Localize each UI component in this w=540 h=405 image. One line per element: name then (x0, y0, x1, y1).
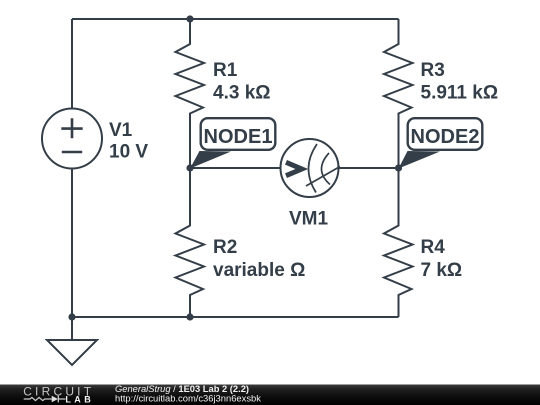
junction dot top node (186, 15, 193, 22)
svg-text:R3: R3 (421, 60, 445, 81)
resistor R2 (176, 168, 205, 317)
wire left branch lower (V1 bottom lead) (71, 169, 73, 318)
svg-text:R2: R2 (213, 237, 237, 258)
svg-text:LAB: LAB (65, 395, 94, 405)
svg-text:R4: R4 (421, 237, 446, 258)
voltmeter VM1 pointer glyph (286, 162, 302, 175)
voltmeter VM1 (281, 139, 341, 197)
svg-text:5.911 kΩ: 5.911 kΩ (421, 83, 499, 104)
wire bottom rail (72, 316, 399, 318)
svg-text:NODE2: NODE2 (411, 126, 480, 148)
junction dot ground node R2 (186, 313, 193, 320)
node flag NODE1 (190, 118, 275, 168)
node flag NODE2 (399, 118, 483, 168)
resistor R1 (176, 19, 205, 168)
junction dot NODE2 (395, 164, 402, 171)
logo doodle resistor (24, 397, 52, 400)
wire VM1 left lead (190, 167, 281, 169)
resistor R3 (384, 19, 413, 168)
wire VM1 right lead (339, 167, 399, 169)
svg-text:http://circuitlab.com/c36j3nn6: http://circuitlab.com/c36j3nn6exsbk (115, 393, 261, 404)
svg-text:10 V: 10 V (109, 142, 148, 163)
svg-text:NODE1: NODE1 (204, 126, 273, 148)
svg-text:R1: R1 (213, 60, 238, 81)
svg-text:VM1: VM1 (289, 209, 329, 230)
voltage source V1 (42, 109, 102, 169)
wire top rail (72, 18, 399, 20)
svg-text:4.3 kΩ: 4.3 kΩ (213, 83, 271, 104)
ground (47, 340, 97, 365)
svg-text:V1: V1 (109, 120, 133, 141)
resistor R4 (384, 168, 413, 317)
svg-text:7 kΩ: 7 kΩ (421, 260, 463, 281)
logo doodle diode (52, 396, 66, 403)
svg-text:variable Ω: variable Ω (213, 260, 305, 281)
footer bar (0, 385, 540, 405)
wire left branch upper (V1 top lead) (71, 19, 73, 109)
wire ground stub (71, 317, 73, 340)
junction dot NODE1 (186, 164, 193, 171)
junction dot ground node left (68, 313, 75, 320)
